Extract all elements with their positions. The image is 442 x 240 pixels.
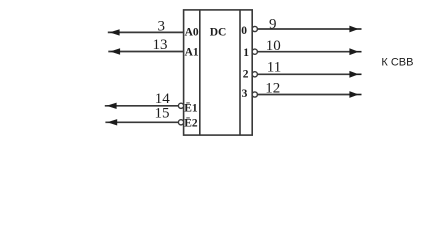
svg-text:9: 9 [269,17,277,33]
pin number 14 [155,91,171,107]
svg-text:2: 2 [243,69,249,81]
pin label E1 (active low) [184,102,198,115]
pin number 11 [267,60,281,76]
svg-text:1: 1 [243,47,249,59]
inversion bubble E1 [178,103,183,108]
pin number 12 [265,81,280,97]
svg-text:A0: A0 [185,27,199,39]
wire output 3 with right arrowhead [257,91,361,98]
pin number 3 [157,18,165,34]
inversion bubble output 3 [252,92,257,97]
output label 1 [243,47,249,59]
decoder U1 body [184,10,253,135]
pin number 10 [266,38,281,54]
pin label E2 (active low) [184,116,198,129]
inversion bubble output 1 [252,49,257,54]
inversion bubble output 2 [252,72,257,77]
wire input A0 with left arrowhead [108,29,184,35]
output label 0 [241,25,247,37]
wire input A1 with left arrowhead [108,48,183,54]
wire output 1 with right arrowhead [257,48,361,55]
decoder function label DC [210,26,227,38]
svg-text:Ē2: Ē2 [184,116,198,129]
pin number 15 [155,105,170,121]
svg-text:К СВВ: К СВВ [381,57,413,69]
svg-text:3: 3 [242,88,248,100]
svg-text:A1: A1 [185,47,199,59]
pin label A0 [185,27,199,39]
svg-text:0: 0 [241,25,247,37]
net label K CBB [381,57,413,69]
svg-text:12: 12 [265,81,280,97]
svg-text:13: 13 [153,37,168,53]
svg-text:15: 15 [155,105,170,121]
wire input E1 with left arrowhead [105,103,179,109]
inversion bubble output 0 [252,26,257,31]
pin number 9 [269,17,277,33]
wire output 2 with right arrowhead [257,71,361,78]
svg-text:3: 3 [157,18,165,34]
inversion bubble E2 [178,120,183,125]
pin label A1 [185,47,199,59]
svg-text:DC: DC [210,26,227,38]
svg-text:Ē1: Ē1 [184,102,198,115]
wire output 0 with right arrowhead [257,26,361,33]
svg-text:11: 11 [267,60,281,76]
output label 2 [243,69,249,81]
pin number 13 [153,37,168,53]
output label 3 [242,88,248,100]
svg-text:10: 10 [266,38,281,54]
wire input E2 with left arrowhead [105,119,178,125]
